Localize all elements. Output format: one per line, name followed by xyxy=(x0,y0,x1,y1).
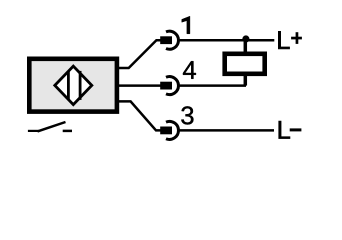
wire pin 4 to load xyxy=(179,84,246,87)
wire pin 1 to L+ xyxy=(179,39,274,42)
connector pin 3 xyxy=(160,121,178,139)
pin number 3 xyxy=(181,106,193,124)
wire box to pin 3 xyxy=(117,101,161,130)
connector pin 1 xyxy=(160,31,178,49)
wire pin 3 to L- xyxy=(179,129,274,132)
junction node on L+ line xyxy=(242,35,249,42)
L- label xyxy=(279,121,302,139)
switch contact (NO output) xyxy=(28,122,72,131)
connector pin 4 xyxy=(160,77,178,95)
L+ label xyxy=(278,31,302,49)
wire load to pin-4 line (bottom stub) xyxy=(244,73,248,86)
sensor body (gray box) xyxy=(29,59,117,112)
pin number 1 xyxy=(182,16,190,34)
wire box to pin 1 xyxy=(117,40,161,68)
wire box to pin 4 xyxy=(117,84,161,87)
wire junction to load (top stub) xyxy=(244,39,248,55)
proximity sensor symbol (diamond) xyxy=(55,66,92,104)
load resistor xyxy=(225,54,265,74)
pin number 4 xyxy=(183,61,196,79)
